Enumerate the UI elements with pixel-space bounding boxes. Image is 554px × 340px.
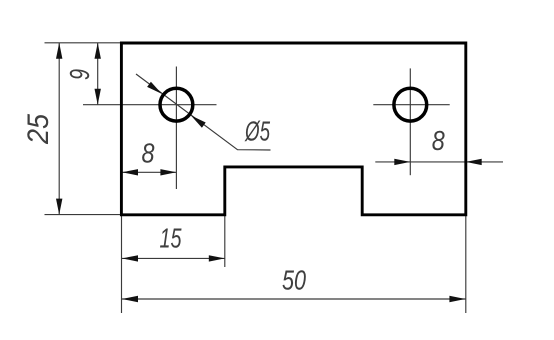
extension line bottom-left (y=214.6) <box>45 214 121 216</box>
arrow 50 right <box>449 296 465 302</box>
dimension line 8 (left) <box>121 171 176 173</box>
svg-text:8: 8 <box>432 125 445 156</box>
dimension line 15 <box>122 257 225 259</box>
arrow 9 bottom <box>95 89 101 105</box>
arrow 9 top <box>95 43 101 59</box>
arrow 15 right <box>209 255 225 261</box>
dimension line 9 <box>97 43 99 105</box>
svg-text:Ø5: Ø5 <box>244 116 270 147</box>
hole right <box>394 88 427 121</box>
dimension line 8 (right) <box>375 161 503 163</box>
centerline vertical right circle <box>409 68 411 175</box>
svg-text:25: 25 <box>22 114 55 145</box>
leader arrow upper <box>147 82 162 94</box>
extension line top (y=42.8) <box>45 42 122 44</box>
arrow 8-right outer (points left) <box>466 159 482 165</box>
arrow 8-left left <box>122 169 138 175</box>
arrow 15 left <box>122 255 138 261</box>
centerline horizontal right circle <box>373 104 449 106</box>
svg-text:9: 9 <box>64 69 95 80</box>
leader line diameter <box>136 74 271 150</box>
centerline vertical left circle / ext for 8 <box>175 67 177 190</box>
arrow 50 left <box>122 296 138 302</box>
hole left <box>160 88 193 121</box>
centerline horizontal left circle / ext for 9 <box>83 104 217 106</box>
svg-text:50: 50 <box>282 265 306 296</box>
svg-text:15: 15 <box>160 223 182 254</box>
dimension line 50 <box>122 298 466 300</box>
extension line bottom right vertical <box>465 215 467 313</box>
leader arrow lower <box>191 116 206 128</box>
arrow 25 bottom <box>56 199 62 215</box>
extension line notch-left vertical <box>224 215 226 267</box>
extension line bottom left vertical <box>121 215 123 313</box>
svg-text:8: 8 <box>142 138 155 169</box>
part outline <box>121 43 465 215</box>
arrow 25 top <box>56 43 62 59</box>
dimension line 25 <box>58 43 60 215</box>
arrow 8-right inner (points right) <box>394 159 410 165</box>
arrow 8-left right <box>160 169 176 175</box>
